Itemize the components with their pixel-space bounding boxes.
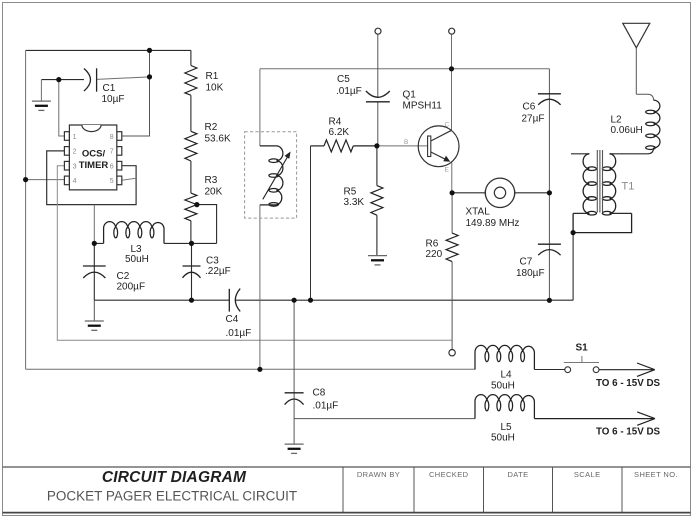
resistor R4 bbox=[311, 140, 377, 152]
junction C8 branch at ground wire bbox=[292, 298, 297, 303]
junction variable inductor drop at L4 feed bbox=[257, 367, 262, 372]
svg-text:CIRCUIT DIAGRAM: CIRCUIT DIAGRAM bbox=[102, 469, 247, 486]
wire left rail bbox=[25, 50, 27, 369]
svg-text:20K: 20K bbox=[205, 187, 223, 198]
svg-text:MPSH11: MPSH11 bbox=[403, 101, 443, 112]
svg-text:3.3K: 3.3K bbox=[344, 197, 365, 208]
wire C5 column bbox=[377, 34, 379, 146]
svg-text:50uH: 50uH bbox=[491, 381, 515, 392]
svg-text:200µF: 200µF bbox=[117, 282, 146, 293]
capacitor C3 bbox=[183, 266, 201, 278]
junction C7 bottom at ground wire bbox=[547, 298, 552, 303]
wire C8 drop bbox=[293, 300, 295, 444]
svg-text:2: 2 bbox=[73, 149, 77, 156]
capacitor C4 bbox=[229, 289, 240, 312]
svg-text:C2: C2 bbox=[117, 271, 130, 282]
svg-text:R5: R5 bbox=[344, 186, 357, 197]
wire L3 node leads bbox=[94, 242, 216, 244]
wire arrow1 shaft bbox=[599, 363, 655, 376]
svg-text:220: 220 bbox=[426, 249, 443, 260]
svg-text:DATE: DATE bbox=[507, 470, 528, 479]
capacitor C1 bbox=[84, 68, 97, 91]
capacitor C2 bbox=[83, 266, 106, 278]
svg-text:8: 8 bbox=[110, 134, 114, 141]
svg-text:C4: C4 bbox=[226, 314, 239, 325]
wire C2 column bbox=[93, 243, 95, 300]
svg-text:180µF: 180µF bbox=[516, 268, 545, 279]
capacitor C7 bbox=[538, 244, 561, 255]
svg-text:C5: C5 bbox=[337, 74, 350, 85]
svg-text:.01µF: .01µF bbox=[313, 401, 339, 412]
svg-text:C6: C6 bbox=[523, 102, 536, 113]
inductor L2 bbox=[646, 100, 660, 149]
inductor L5 bbox=[475, 395, 534, 419]
transistor Q1 bbox=[418, 126, 459, 167]
svg-text:T1: T1 bbox=[622, 181, 635, 193]
variable inductor coil bbox=[260, 146, 283, 206]
wire pin4 to left rail bbox=[26, 179, 65, 181]
svg-text:0.06uH: 0.06uH bbox=[611, 125, 643, 136]
wire pin2 feedback loop to pin6 bbox=[47, 151, 136, 205]
svg-text:L2: L2 bbox=[611, 115, 623, 126]
antenna bbox=[623, 23, 650, 48]
wire bottom L4 feed bbox=[26, 368, 475, 370]
svg-text:R6: R6 bbox=[426, 239, 439, 250]
svg-text:B: B bbox=[404, 139, 408, 146]
terminal circle top 1 bbox=[375, 28, 381, 34]
capacitor C8 bbox=[285, 393, 304, 405]
junction T1 secondary bottom corner bbox=[571, 230, 576, 235]
variable inductor arrow bbox=[263, 152, 291, 200]
resistor R6 bbox=[446, 233, 458, 262]
svg-text:S1: S1 bbox=[576, 343, 589, 354]
wire IC bottom drop to L3 bbox=[93, 205, 95, 244]
title block bbox=[3, 467, 691, 513]
resistor R2 bbox=[185, 131, 197, 161]
junction node L3/R3/C3 bbox=[189, 241, 194, 246]
svg-text:R2: R2 bbox=[205, 122, 218, 133]
resistor R5 bbox=[371, 186, 383, 216]
terminal circle bottom bbox=[449, 350, 455, 356]
IC U1 OCS/TIMER bbox=[64, 125, 121, 190]
wire L4 to S1 bbox=[534, 369, 565, 371]
junction XTAL right at C6-C7 rail bbox=[547, 190, 552, 195]
svg-text:.22µF: .22µF bbox=[205, 266, 231, 277]
junction node L3/C2/U1 bbox=[92, 241, 97, 246]
svg-text:L5: L5 bbox=[501, 422, 513, 433]
svg-text:50uH: 50uH bbox=[125, 254, 149, 265]
terminal circle top 2 bbox=[449, 28, 455, 34]
junction emitter/XTAL/R6 node bbox=[450, 190, 455, 195]
wire C1 left bbox=[41, 79, 84, 81]
svg-text:50uH: 50uH bbox=[491, 433, 515, 444]
wire C3 column bbox=[191, 243, 193, 300]
variable inductor dashed box bbox=[245, 132, 297, 218]
svg-text:Q1: Q1 bbox=[403, 90, 417, 101]
svg-text:7: 7 bbox=[110, 149, 114, 156]
svg-text:C1: C1 bbox=[103, 83, 116, 94]
transformer T1 bottom link bbox=[573, 213, 632, 232]
pin numbers U1 bbox=[73, 134, 114, 185]
wire T1 top-left stub bbox=[571, 153, 589, 155]
junction R3 wiper tap bbox=[194, 202, 199, 207]
svg-text:53.6K: 53.6K bbox=[205, 134, 231, 145]
junction C1 left node to pin1 bbox=[56, 77, 61, 82]
svg-text:27µF: 27µF bbox=[522, 114, 545, 125]
wire T1 bottom leads bbox=[573, 212, 632, 214]
ground below R5 bbox=[368, 256, 387, 265]
svg-text:R3: R3 bbox=[205, 175, 218, 186]
wire R5 leads bbox=[376, 146, 378, 255]
svg-text:C3: C3 bbox=[206, 256, 219, 267]
svg-text:R1: R1 bbox=[206, 71, 219, 82]
junction C1 right plate to pin8 riser bbox=[147, 74, 152, 79]
svg-text:OCS/: OCS/ bbox=[82, 149, 106, 160]
wire R4 left drop bbox=[310, 146, 312, 300]
ground near C1 bbox=[32, 80, 51, 111]
wire C1 right sloped bbox=[97, 77, 150, 80]
wire variable inductor top bbox=[259, 69, 261, 146]
svg-text:4: 4 bbox=[73, 178, 77, 185]
svg-text:1: 1 bbox=[73, 134, 77, 141]
wire pin5 sloped bbox=[122, 178, 136, 180]
svg-text:.01µF: .01µF bbox=[226, 328, 252, 339]
transformer T1 bbox=[583, 154, 616, 215]
inductor L4 bbox=[475, 345, 534, 369]
junction node R4/R5/C5/base bbox=[374, 143, 379, 148]
junction R4 drop at ground wire bbox=[308, 298, 313, 303]
pin letters Q1 B C E bbox=[404, 122, 450, 174]
wire C1 node down to pin1 bbox=[59, 80, 65, 136]
resistor R3 with tap bbox=[185, 193, 197, 221]
capacitor C6 bbox=[538, 94, 561, 105]
inductor L3 bbox=[104, 222, 164, 244]
wire XTAL leads bbox=[452, 192, 549, 194]
junction collector rail at top wire bbox=[449, 66, 454, 71]
capacitor C5 bbox=[366, 91, 390, 102]
crystal XTAL bbox=[485, 178, 514, 207]
wire T1 top-right to L2 bbox=[610, 148, 654, 154]
svg-text:149.89 MHz: 149.89 MHz bbox=[466, 218, 520, 229]
wire R6 rail to terminal bbox=[451, 193, 453, 350]
wire variable inductor bottom drop bbox=[259, 205, 261, 369]
wire x150 riser to pin8 bbox=[122, 50, 150, 136]
wire long rail y68.8 bbox=[260, 68, 550, 70]
svg-text:SCALE: SCALE bbox=[574, 470, 601, 479]
wire L5 branch bbox=[294, 418, 475, 420]
svg-text:SHEET NO.: SHEET NO. bbox=[634, 470, 678, 479]
svg-text:6.2K: 6.2K bbox=[329, 127, 350, 138]
ground below C2 bbox=[85, 300, 104, 330]
wire R3 tap bracket bbox=[197, 205, 217, 244]
svg-text:E: E bbox=[445, 167, 450, 174]
switch S1 bbox=[564, 356, 599, 373]
svg-text:6: 6 bbox=[110, 164, 114, 171]
wire resistor column bbox=[190, 50, 192, 243]
svg-text:C8: C8 bbox=[313, 388, 326, 399]
svg-text:10K: 10K bbox=[206, 83, 224, 94]
svg-text:TO 6 - 15V DS: TO 6 - 15V DS bbox=[596, 378, 661, 389]
wire arrow2 shaft bbox=[534, 412, 655, 425]
junction C3 bottom at ground wire bbox=[189, 298, 194, 303]
wire T1 bottom drop bbox=[572, 233, 574, 301]
wire main ground rail y300 bbox=[94, 299, 573, 301]
svg-text:C: C bbox=[445, 122, 450, 129]
svg-text:C7: C7 bbox=[520, 257, 533, 268]
ground below C8 bbox=[285, 444, 304, 453]
wire collector rail bbox=[451, 34, 453, 130]
svg-text:3: 3 bbox=[73, 164, 77, 171]
svg-text:TO 6 - 15V DS: TO 6 - 15V DS bbox=[596, 426, 661, 437]
wire antenna stem and L2 top elbow bbox=[636, 48, 653, 100]
junction left rail at pin4 wire bbox=[23, 177, 28, 182]
svg-text:R4: R4 bbox=[329, 117, 342, 128]
svg-text:XTAL: XTAL bbox=[466, 207, 491, 218]
transformer T1 core bbox=[597, 150, 602, 213]
svg-text:.01µF: .01µF bbox=[336, 86, 362, 97]
svg-text:CHECKED: CHECKED bbox=[429, 470, 469, 479]
svg-text:5: 5 bbox=[110, 178, 114, 185]
junction on V+ rail at C1 riser bbox=[147, 48, 152, 53]
resistor R1 bbox=[185, 66, 197, 96]
svg-text:10µF: 10µF bbox=[102, 94, 125, 105]
wire emitter rail bbox=[451, 162, 453, 193]
wire top rail V+ bbox=[26, 49, 191, 51]
svg-text:TIMER: TIMER bbox=[79, 160, 109, 171]
svg-text:DRAWN BY: DRAWN BY bbox=[357, 470, 400, 479]
wire C6-C7 rail bbox=[548, 69, 550, 300]
wire pin3 drop to terminal rail bbox=[57, 166, 452, 341]
wire base lead bbox=[377, 145, 428, 147]
svg-text:L4: L4 bbox=[501, 370, 513, 381]
svg-text:POCKET PAGER ELECTRICAL CIRCUI: POCKET PAGER ELECTRICAL CIRCUIT bbox=[47, 489, 297, 504]
